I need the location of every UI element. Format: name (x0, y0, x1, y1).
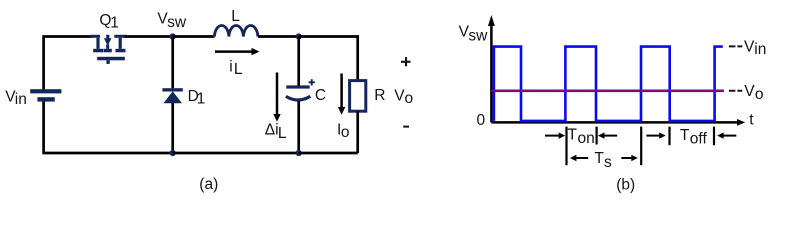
svg-text:t: t (749, 112, 754, 129)
diode D1 (162, 88, 182, 103)
current arrow Io (338, 74, 345, 115)
tick at Ts end (640, 127, 642, 166)
svg-text:o: o (405, 90, 414, 107)
label + (Vo polarity) (401, 57, 411, 66)
wire: bottom rail C to bottom-right corner (299, 152, 358, 155)
svg-text:on: on (578, 130, 595, 147)
label Ts (594, 150, 612, 171)
arrow pointing left to Toff end tick (717, 132, 736, 138)
wire: inductor L to node C (258, 35, 299, 38)
svg-text:0: 0 (477, 112, 486, 129)
svg-text:V: V (744, 83, 755, 100)
average output level line Vo (purple) (491, 90, 724, 93)
svg-text:i: i (229, 58, 232, 75)
svg-text:R: R (374, 87, 385, 104)
arrow pointing right to Ton start tick (545, 132, 565, 138)
inductor L (214, 25, 258, 36)
svg-text:L: L (231, 8, 240, 25)
label D1 (188, 88, 206, 108)
dashed leader to Vo level (729, 90, 742, 92)
arrow pointing left to Ton end tick (598, 132, 617, 138)
current arrow delta-iL (273, 73, 280, 122)
tick at Toff start (668, 127, 670, 146)
wire: node Vsw down to diode D1 cathode (171, 37, 174, 88)
svg-text:1: 1 (197, 90, 206, 107)
tick at Ton start / Ts start (565, 127, 567, 166)
wire: bottom rail D1 to C (173, 152, 299, 155)
svg-text:sw: sw (468, 28, 488, 45)
voltage source Vin (battery) (30, 89, 61, 101)
wire: capacitor C top lead (297, 37, 300, 86)
wire: Vin+ up and top rail to Q1 drain (44, 37, 93, 91)
label iL (229, 58, 243, 78)
svg-text:o: o (755, 86, 764, 103)
label Vsw (157, 10, 186, 31)
label Vin (5, 88, 27, 108)
wire: Vin- down to bottom rail and along to D1 anode node (44, 101, 173, 153)
wire: D1 anode to bottom rail (171, 103, 174, 153)
svg-text:in: in (15, 91, 27, 108)
svg-text:off: off (690, 131, 708, 148)
junction dot bottom rail at D1 (170, 150, 176, 156)
svg-text:sw: sw (167, 14, 187, 31)
wire: resistor R bottom to bottom rail (356, 111, 359, 153)
node Vsw junction dot (170, 33, 176, 39)
svg-text:T: T (680, 127, 690, 144)
arrow pointing right to Toff start tick (646, 132, 665, 138)
plot x-axis t (491, 119, 745, 126)
svg-text:T: T (594, 150, 604, 167)
dashed leader to Vin level (729, 45, 742, 47)
junction dot bottom rail at C (296, 150, 302, 156)
svg-text:(b): (b) (616, 176, 635, 193)
label delta-iL (265, 121, 287, 141)
wire: Q1 source to node Vsw (125, 35, 173, 38)
wire: node C to top-right corner down to resistor R (299, 37, 358, 81)
svg-text:T: T (568, 127, 578, 144)
arrow pointing right to Ts end tick (621, 155, 637, 161)
svg-text:Δi: Δi (265, 121, 279, 138)
label Toff (680, 127, 708, 148)
label - (Vo polarity) (403, 126, 409, 128)
label Io (337, 122, 350, 141)
label Vo (394, 88, 413, 108)
label Vsw (plot axis) (459, 24, 489, 45)
waveform Vsw square wave (494, 47, 723, 121)
tick at Toff end (713, 127, 715, 146)
svg-text:(a): (a) (199, 176, 218, 193)
transistor Q1 (90, 35, 126, 64)
svg-text:L: L (234, 61, 243, 78)
plot y-axis Vsw (488, 15, 495, 122)
tick at Ton end (595, 127, 597, 145)
label Vin (level) (744, 38, 766, 58)
label Vo (level) (744, 83, 763, 103)
svg-text:s: s (604, 154, 612, 171)
svg-text:L: L (278, 125, 287, 142)
svg-text:in: in (754, 41, 766, 58)
current arrow iL (215, 48, 260, 55)
resistor R (350, 81, 366, 112)
svg-text:1: 1 (110, 15, 119, 32)
svg-text:o: o (341, 124, 350, 141)
capacitor C (286, 79, 315, 100)
label Q1 (99, 12, 118, 32)
wire: capacitor C bottom lead to bottom rail (297, 101, 300, 153)
junction dot at capacitor top node (296, 33, 302, 39)
label Ton (568, 127, 595, 148)
svg-text:C: C (315, 87, 326, 104)
wire: node Vsw to inductor L (173, 35, 215, 38)
arrow pointing left to Ts start tick (570, 155, 588, 161)
